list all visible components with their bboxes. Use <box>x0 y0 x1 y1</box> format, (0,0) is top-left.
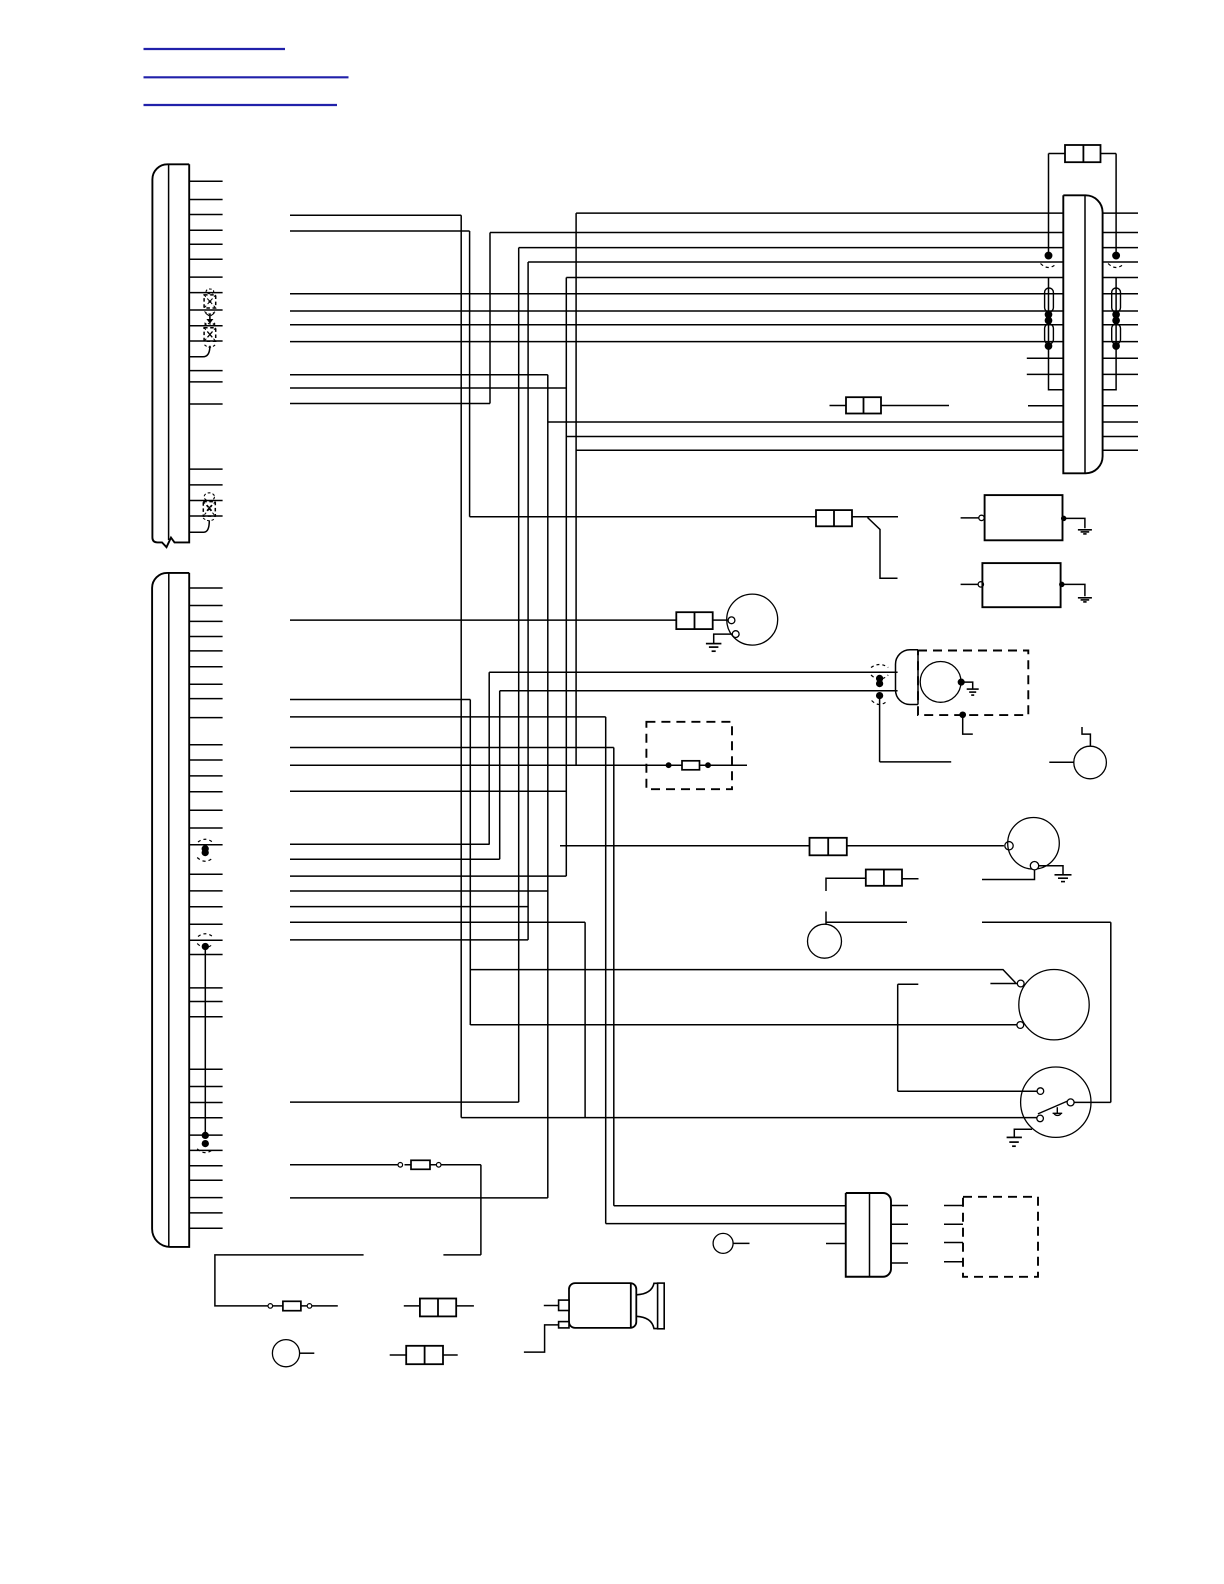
wire W51 resistor to battery <box>405 1165 481 1255</box>
wire curved return F2 to pin <box>189 346 210 357</box>
capsule fuse right upper <box>1112 288 1121 312</box>
wire W60 fuse F10 right stub <box>443 1354 458 1356</box>
wire W37 coil terminal 2 lead <box>982 870 1035 880</box>
fuse F9 <box>420 1299 456 1317</box>
wire W31 pin 890.9 <box>290 890 548 892</box>
junction dot K3 out <box>1060 582 1064 586</box>
wire W46 branch C <box>898 984 1037 1091</box>
motor M1 body <box>1019 970 1089 1040</box>
fuse F8 <box>866 870 902 886</box>
sender circle B5 <box>713 1233 733 1253</box>
connector J2 pins <box>189 588 222 1228</box>
wire W50 resistor feed <box>290 1164 398 1166</box>
wire W62 horn relay branch <box>880 696 952 762</box>
wire L12 to bus <box>576 449 1063 451</box>
capsule fuse left lower <box>1045 324 1054 344</box>
wire L6 to bus <box>290 293 1063 295</box>
wire W33 pin 924.2 <box>290 921 585 923</box>
fuse F5 <box>816 510 852 526</box>
vertical V7 <box>565 278 567 877</box>
wire W66 sender stub <box>733 1242 749 1244</box>
wire W24 pin 717.6 <box>290 716 606 718</box>
capsule dots right <box>1113 311 1119 323</box>
motor M1 terminal 1 <box>1017 980 1024 987</box>
capsule bottom dot left <box>1045 343 1051 349</box>
coil T1 terminal 1 <box>1005 842 1013 850</box>
wire W18 lamp ground lead <box>714 634 733 643</box>
wire W34 pin 940.2 <box>290 939 528 941</box>
wire L9 to bus <box>290 341 1063 343</box>
ignition switch S1 body <box>1021 1067 1091 1137</box>
terminal circle K3 <box>978 582 983 587</box>
wire W38 coil case ground lead <box>1039 866 1063 875</box>
wire W25 pin 744.8 <box>290 747 614 749</box>
resistor R2 <box>411 1160 430 1169</box>
coil T1 terminal 2 <box>1030 862 1038 870</box>
wire L7 to bus <box>290 310 1063 312</box>
wire curved return F3 to pin <box>189 521 209 533</box>
vertical V13 <box>613 748 615 1206</box>
switch blade <box>1038 1101 1068 1114</box>
wire W39 fuse F8 left lead <box>826 878 866 891</box>
junction dots at J2 pin 1135 <box>197 1133 213 1153</box>
wire W23 pin 698.6 <box>290 699 470 701</box>
fuse F4 <box>846 397 881 413</box>
dashed box distributor <box>918 651 1028 716</box>
wire W21 distributor ground lead <box>961 682 973 689</box>
wire W14 box K3 left lead <box>961 583 978 585</box>
connector J2 shell <box>152 573 189 1247</box>
vertical V4 <box>518 248 520 1103</box>
wire W11 branch diagonal <box>868 518 898 579</box>
fuse F3 (dashed, in J1) <box>203 493 215 521</box>
wire W5 pin15 <box>290 403 490 405</box>
resistor R3 <box>283 1301 301 1310</box>
hyperlink underline 1 <box>144 48 286 50</box>
wire W16 lamp feed <box>290 619 676 621</box>
ground G5 <box>1055 875 1072 882</box>
bottom connector J5 shell <box>846 1193 891 1277</box>
indicator circle B3 <box>272 1340 299 1367</box>
motor M1 terminal 2 <box>1017 1022 1024 1029</box>
junction dot left chain <box>1045 252 1051 258</box>
wire L10 to bus <box>548 421 1064 423</box>
battery BT1 <box>215 1255 364 1306</box>
right bus connector J4 shell <box>1063 195 1102 473</box>
switch terminal B <box>1037 1115 1044 1122</box>
wire W9 fan feed <box>470 516 816 518</box>
distributor circle <box>920 662 961 703</box>
wire W41 sensor top lead <box>826 912 907 925</box>
wire W48 switch ground lead <box>1014 1129 1032 1137</box>
wire W47 switch feed B <box>461 1117 1036 1119</box>
wire W20 distributor lower <box>500 690 898 692</box>
wire W61 starter circle feed <box>1049 761 1074 763</box>
ground G2 <box>1078 598 1092 602</box>
capsule dots left <box>1045 311 1051 323</box>
fuse F1 (dashed, in J1) <box>204 289 216 314</box>
ground G4 <box>967 689 979 695</box>
lamp B1 terminal 1 <box>728 617 735 624</box>
capsule bottom dot right <box>1113 343 1119 349</box>
wire W7 fuse F4 right <box>881 405 949 407</box>
wire W30 pin 874.2 <box>290 875 566 877</box>
wire W17 fuse F6 right <box>713 619 728 621</box>
wire L8 to bus <box>290 324 1063 326</box>
wire L2 to bus <box>490 232 1063 234</box>
wire W49 pin 1102.5 <box>290 1101 519 1103</box>
switch terminal C <box>1067 1099 1074 1106</box>
junction dot right chain <box>1113 252 1119 258</box>
wire W1 pin3 <box>290 214 461 216</box>
coil T1 body <box>1008 818 1060 870</box>
wire W35 ignition coil feed <box>560 845 810 847</box>
wire L4 to bus <box>528 261 1063 263</box>
bus left short stub 374 <box>1027 373 1064 375</box>
vertical V8 <box>575 213 577 765</box>
wire W6 fuse feed left <box>830 405 847 407</box>
fuse link dot J1 <box>209 315 211 323</box>
wire W43 motor feed upper <box>470 970 1015 983</box>
wire L3 to bus <box>519 247 1064 249</box>
fuse F2 (dashed, in J1) <box>204 323 217 347</box>
vertical V2 <box>469 231 471 517</box>
relay box K2 <box>985 495 1063 540</box>
wire right chain through capsules <box>1103 277 1117 390</box>
mating arc right chain <box>1108 264 1124 268</box>
wire W54 fuse F9 left stub <box>404 1305 420 1307</box>
vertical V10 <box>469 700 471 1026</box>
distributor plug shell <box>896 650 919 705</box>
junction dot distributor right <box>958 679 964 685</box>
connector J1 pins <box>189 181 222 516</box>
junction (mating connector) at J2 pin 844.7 <box>197 839 213 861</box>
wire W2 pin4 <box>290 230 470 232</box>
vertical V9 <box>499 691 501 860</box>
dashed module stubs <box>944 1206 963 1262</box>
wire W3 pin13 <box>290 387 566 389</box>
horn H1 bell <box>636 1283 664 1329</box>
resistor R2 terminal circle b <box>436 1163 441 1168</box>
wire W57 horn lower lead <box>524 1325 559 1352</box>
wire W26 resistor circuit <box>290 764 747 766</box>
battery terminal circle b <box>307 1304 312 1309</box>
jumper wire inside J2 pins <box>204 947 206 1136</box>
vertical V3a <box>489 233 491 404</box>
wire W36 fuse F7 right <box>847 845 1004 847</box>
mating arc left chain <box>1041 264 1057 268</box>
relay box K1 (top) <box>1065 145 1101 162</box>
hyperlink underline 3 <box>144 104 338 106</box>
wire W28 pin 844.7 <box>290 843 490 845</box>
relay box K3 <box>982 563 1060 607</box>
ground G6 <box>1007 1137 1022 1146</box>
wire W53 battery to fuse <box>273 1305 338 1307</box>
junction mating marks distributor <box>871 665 888 705</box>
junction (mating connector) at J2 pin 940.2 <box>197 934 213 950</box>
wire W27 pin 791.8 <box>290 790 566 792</box>
vertical V12 <box>605 717 607 1224</box>
wire L5 to bus <box>566 277 1063 279</box>
wire W45 motor feed lower <box>470 1024 1016 1026</box>
wire W64 bottom connector feed 1 <box>614 1205 846 1207</box>
starter circle B4 <box>1074 746 1107 779</box>
connector J1 shell <box>152 164 189 547</box>
dashed box module <box>963 1197 1038 1277</box>
wire W42 ground link to switch <box>982 922 1111 1102</box>
fuse F10 <box>406 1346 443 1364</box>
wire W56 horn feed <box>544 1305 559 1307</box>
horn H1 body <box>559 1283 637 1328</box>
wire W19 distributor upper <box>489 671 897 673</box>
switch terminal A <box>1037 1088 1044 1095</box>
bus pin stubs right <box>1103 213 1138 450</box>
wire W8 bus stub <box>1028 405 1063 407</box>
wire W29 pin 859 <box>290 858 500 860</box>
vertical V3b <box>488 672 490 844</box>
wire W52 pin 1197.6 <box>290 1197 548 1199</box>
resistor R2 terminal circle a <box>398 1163 403 1168</box>
connector J5 pins <box>891 1206 908 1264</box>
wire W12 box K2 left lead <box>961 517 979 519</box>
wire W10 fuse F5 right <box>852 516 898 518</box>
terminal circle K2 <box>979 515 984 520</box>
wire L11 to bus <box>566 436 1063 438</box>
wire W15 box K3 right lead <box>1061 584 1085 596</box>
junction dot dashed box bottom <box>960 712 965 717</box>
wire W65 bottom connector feed 2 <box>606 1223 846 1225</box>
vertical V5 <box>527 262 529 940</box>
ground G1 <box>1078 530 1092 534</box>
wire W63 starter circle top hook <box>1082 727 1090 746</box>
wire W59 fuse F10 left stub <box>390 1354 407 1356</box>
fuse F7 <box>810 838 847 856</box>
junction dot W26 a <box>666 763 670 767</box>
wire W58 indicator stub <box>300 1352 315 1354</box>
vertical V1 <box>460 215 462 1117</box>
hyperlink underline 2 <box>144 76 349 78</box>
resistor R1 <box>682 761 700 770</box>
vertical V6 <box>547 375 549 1198</box>
switch internal ground <box>1053 1107 1063 1115</box>
wire W4 pin14 <box>290 374 548 376</box>
lamp B1 body <box>727 594 778 645</box>
wire W40 fuse F8 right lead <box>902 878 919 880</box>
fuse F6 <box>676 612 712 629</box>
wire W44 motor upper stub <box>990 983 1017 985</box>
battery terminal circle a <box>268 1304 273 1309</box>
wire W32 pin 906.8 <box>290 906 528 908</box>
dashed box resistor R1 <box>646 722 732 789</box>
wire W67 bottom connector feed 3 <box>826 1243 846 1245</box>
capsule fuse right lower <box>1112 324 1121 344</box>
wire L1 to bus <box>576 212 1063 214</box>
junction dot W26 b <box>706 763 710 767</box>
wire left chain through capsules <box>1049 277 1064 390</box>
wire W55 fuse F9 right stub <box>456 1305 474 1307</box>
wire K1 left lead <box>1049 154 1066 256</box>
wire W13 box K2 right lead <box>1063 518 1085 528</box>
ground G3 <box>706 644 722 652</box>
sensor B2 body <box>808 924 842 958</box>
vertical V11 <box>584 922 586 1117</box>
junction dot K2 out <box>1062 516 1066 520</box>
lamp B1 terminal 2 <box>732 631 739 638</box>
bus left short stub 358 <box>1027 357 1064 359</box>
capsule fuse left upper <box>1045 288 1054 312</box>
wire K1 right lead <box>1101 154 1117 256</box>
wire W22 from dashed box bottom <box>963 715 973 734</box>
